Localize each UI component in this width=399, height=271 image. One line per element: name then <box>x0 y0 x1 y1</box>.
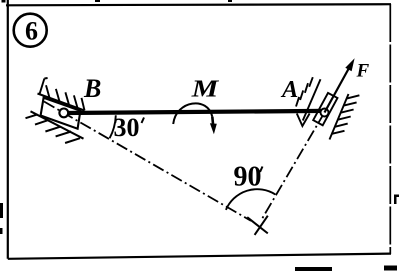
scan speck right edge <box>394 195 399 205</box>
support B slider block <box>41 98 81 129</box>
90 degree arc <box>226 189 275 210</box>
30 degree prime mark <box>142 118 145 124</box>
svg-text:F: F <box>356 60 370 81</box>
scan speck top edge <box>95 0 100 2</box>
beam BA <box>64 111 325 113</box>
scan speck top edge 2 <box>228 0 232 2</box>
dash-dot line vertex to A <box>262 113 324 219</box>
frame top border <box>6 4 391 5</box>
svg-text:A: A <box>280 76 298 103</box>
moment M arc <box>173 103 212 124</box>
dash-dot line B to vertex <box>44 102 251 221</box>
30 degree arc <box>110 115 116 138</box>
frame bottom border <box>8 254 391 259</box>
support A slider block <box>313 93 337 125</box>
problem number circle <box>14 14 47 47</box>
support A right hatching <box>332 95 360 134</box>
support B upper guide <box>38 94 85 111</box>
force F arrowhead <box>345 58 354 71</box>
pin at B <box>59 109 68 118</box>
moment M arrow shaft <box>212 117 213 127</box>
scan speck left edge 2 <box>0 228 3 234</box>
svg-text:90: 90 <box>234 162 262 193</box>
scan speck left edge <box>0 203 3 218</box>
svg-text:30: 30 <box>114 113 140 142</box>
support B lower hatching <box>26 114 81 143</box>
support A left guide <box>303 79 321 120</box>
support B upper hatching <box>40 78 85 110</box>
scan speck bottom edge <box>295 267 332 271</box>
support A left hatching <box>296 77 313 106</box>
scan speck top left corner <box>2 0 6 3</box>
support A right guide <box>330 94 349 140</box>
frame right border <box>389 4 391 254</box>
90 degree prime mark <box>260 167 263 173</box>
frame left border <box>7 0 9 259</box>
vertex X stroke right-line extension <box>255 216 268 235</box>
force F shaft <box>325 64 352 113</box>
vertex X stroke left-line extension <box>247 217 268 233</box>
svg-text:B: B <box>83 74 101 103</box>
moment M arrowhead <box>210 123 217 134</box>
svg-text:M: M <box>191 77 221 103</box>
scan speck bottom right <box>384 266 397 271</box>
pin at A <box>321 109 329 117</box>
svg-text:6: 6 <box>25 17 38 46</box>
support B lower guide <box>31 111 84 138</box>
support A lower V mark <box>297 114 310 127</box>
